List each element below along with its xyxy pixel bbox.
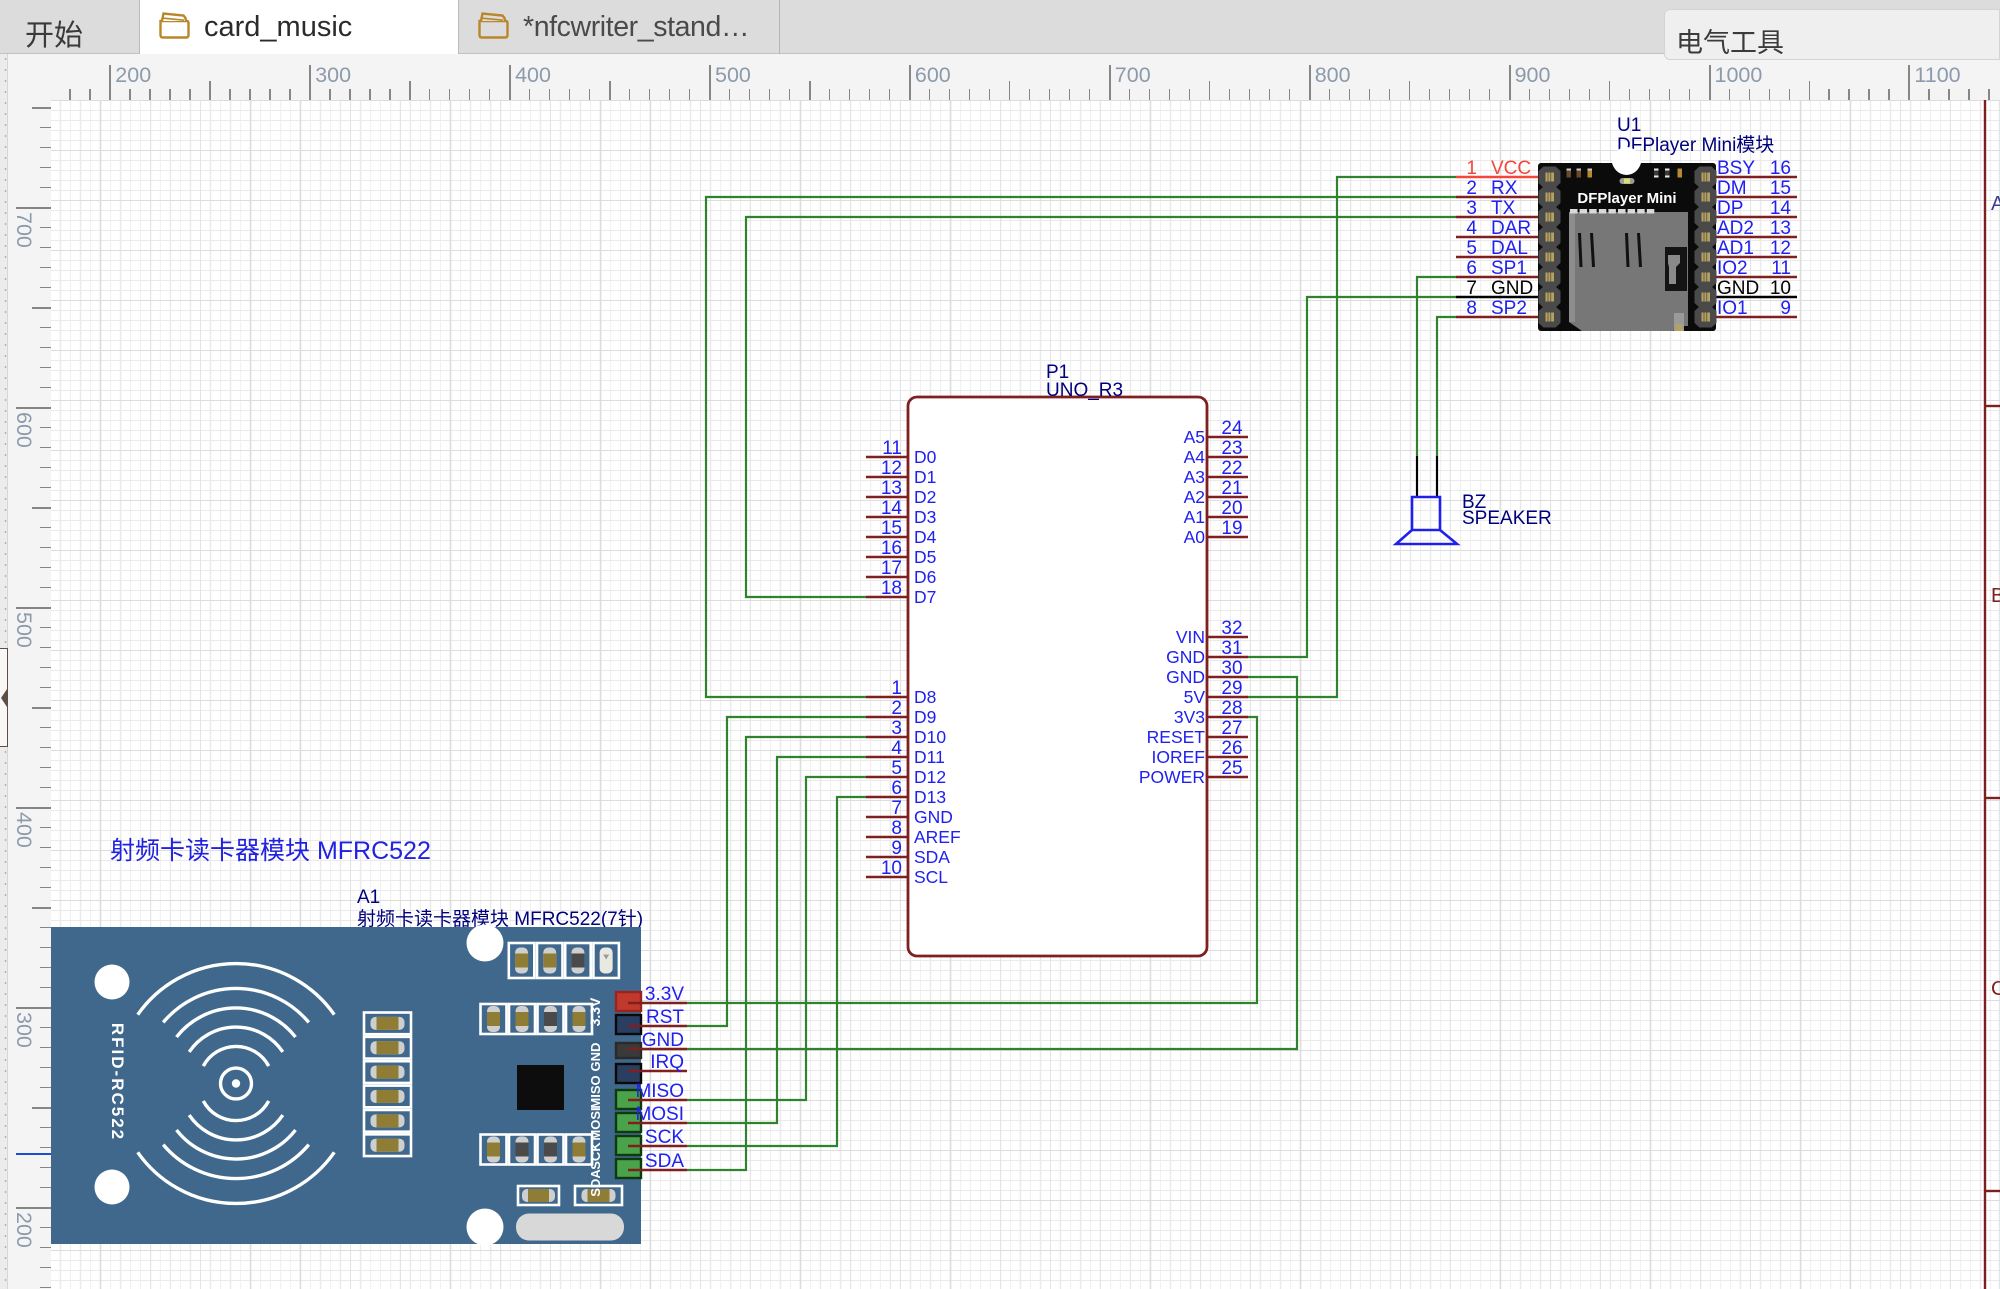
svg-text:D8: D8 xyxy=(914,687,936,707)
svg-text:POWER: POWER xyxy=(1139,767,1205,787)
svg-text:SCK: SCK xyxy=(588,1142,603,1170)
electrical tools panel xyxy=(1664,9,2000,60)
wire MOSI to D11 xyxy=(687,757,866,1123)
svg-text:MOSI: MOSI xyxy=(635,1104,684,1125)
svg-text:A: A xyxy=(1991,193,2000,215)
mfrc522 pin SCK xyxy=(628,1145,687,1148)
svg-text:21: 21 xyxy=(1221,478,1242,499)
svg-text:16: 16 xyxy=(1770,158,1791,179)
dfplayer pin 14 DP xyxy=(1716,216,1797,219)
svg-text:IO2: IO2 xyxy=(1717,258,1748,279)
uno pin 14 D3 xyxy=(866,516,908,519)
wire VCC to 5V net xyxy=(1247,177,1456,697)
svg-text:射频卡读卡器模块 MFRC522(7针): 射频卡读卡器模块 MFRC522(7针) xyxy=(357,908,643,930)
svg-text:1: 1 xyxy=(891,678,902,699)
svg-text:射频卡读卡器模块 MFRC522: 射频卡读卡器模块 MFRC522 xyxy=(110,837,431,865)
svg-text:11: 11 xyxy=(882,438,902,459)
svg-text:2: 2 xyxy=(891,698,902,719)
mfrc522 board picture xyxy=(51,925,641,1246)
svg-text:13: 13 xyxy=(1770,218,1791,239)
svg-text:SP2: SP2 xyxy=(1491,298,1527,319)
dfplayer pin 12 AD1 xyxy=(1716,256,1797,259)
speaker BZ pin wires xyxy=(1416,456,1418,498)
uno pin 18 D7 xyxy=(866,596,908,599)
uno P1 UNO_R3 body xyxy=(908,397,1207,956)
svg-text:SCK: SCK xyxy=(645,1127,684,1148)
svg-text:SDA: SDA xyxy=(914,847,950,867)
svg-text:3: 3 xyxy=(1466,198,1477,219)
svg-text:TX: TX xyxy=(1491,198,1516,219)
dfplayer pin 6 SP1 xyxy=(1456,276,1538,279)
svg-text:VCC: VCC xyxy=(1491,158,1531,179)
svg-text:MISO: MISO xyxy=(635,1081,684,1102)
svg-text:10: 10 xyxy=(881,858,902,879)
svg-text:D13: D13 xyxy=(914,787,946,807)
svg-text:4: 4 xyxy=(1466,218,1477,239)
svg-text:12: 12 xyxy=(1770,238,1791,259)
svg-text:D5: D5 xyxy=(914,547,936,567)
svg-text:14: 14 xyxy=(881,498,903,519)
dfplayer pin 3 TX xyxy=(1456,216,1538,219)
svg-text:SDA: SDA xyxy=(645,1151,684,1172)
uno pin 11 D0 xyxy=(866,456,908,459)
svg-text:DAL: DAL xyxy=(1491,238,1528,259)
svg-text:GND: GND xyxy=(642,1030,684,1051)
uno pin 15 D4 xyxy=(866,536,908,539)
uno pin 32 VIN xyxy=(1207,636,1248,639)
dfplayer pin 1 VCC xyxy=(1456,176,1538,179)
uno pin 21 A2 xyxy=(1207,496,1248,499)
svg-text:26: 26 xyxy=(1221,738,1242,759)
svg-text:31: 31 xyxy=(1221,638,1242,659)
svg-text:IO1: IO1 xyxy=(1717,298,1748,319)
uno pin 29 5V xyxy=(1207,696,1248,699)
svg-text:D9: D9 xyxy=(914,707,936,727)
dfplayer pin 8 SP2 xyxy=(1456,316,1538,319)
uno pin 23 A4 xyxy=(1207,456,1248,459)
dfplayer pin 10 GND xyxy=(1716,296,1797,299)
dfplayer pin 11 IO2 xyxy=(1716,276,1797,279)
svg-text:D11: D11 xyxy=(914,747,945,767)
wire SP2 to speaker xyxy=(1437,317,1456,456)
svg-text:28: 28 xyxy=(1221,698,1242,719)
svg-text:3: 3 xyxy=(891,718,902,739)
mfrc522 pin RST xyxy=(628,1025,687,1028)
dfplayer pin 15 DM xyxy=(1716,196,1797,199)
svg-text:GND: GND xyxy=(588,1043,603,1072)
sheet border right xyxy=(1984,100,1986,1289)
uno pin 30 GND xyxy=(1207,676,1248,679)
svg-text:GND: GND xyxy=(1166,647,1205,667)
corner xyxy=(8,54,51,100)
uno pin 22 A3 xyxy=(1207,476,1248,479)
svg-text:SP1: SP1 xyxy=(1491,258,1527,279)
inactive tab xyxy=(460,0,780,54)
uno pin 24 A5 xyxy=(1207,436,1248,439)
uno pin 5 D12 xyxy=(866,776,908,779)
uno pin 31 GND xyxy=(1207,656,1248,659)
svg-text:4: 4 xyxy=(891,738,902,759)
uno pin 16 D5 xyxy=(866,556,908,559)
uno pin 10 SCL xyxy=(866,876,908,879)
uno pin 9 SDA xyxy=(866,856,908,859)
blue cursor line on left ruler xyxy=(16,1153,51,1155)
svg-text:29: 29 xyxy=(1221,678,1242,699)
active tab xyxy=(139,0,459,54)
svg-text:7: 7 xyxy=(1466,278,1477,299)
svg-text:D1: D1 xyxy=(914,467,936,487)
svg-text:14: 14 xyxy=(1770,198,1792,219)
wire SDA to D10 xyxy=(687,737,866,1170)
svg-text:9: 9 xyxy=(891,838,902,859)
svg-text:D7: D7 xyxy=(914,587,936,607)
svg-text:GND: GND xyxy=(1717,278,1759,299)
svg-text:RFID-RC522: RFID-RC522 xyxy=(108,1023,127,1141)
svg-text:30: 30 xyxy=(1221,658,1242,679)
svg-text:16: 16 xyxy=(881,538,902,559)
svg-text:UNO_R3: UNO_R3 xyxy=(1046,380,1123,401)
svg-text:A3: A3 xyxy=(1184,467,1205,487)
uno pin 4 D11 xyxy=(866,756,908,759)
svg-text:25: 25 xyxy=(1221,758,1242,779)
uno pin 7 GND xyxy=(866,816,908,819)
svg-text:IRQ: IRQ xyxy=(650,1052,684,1073)
svg-text:MOSI: MOSI xyxy=(588,1107,603,1140)
svg-text:RX: RX xyxy=(1491,178,1518,199)
svg-text:IOREF: IOREF xyxy=(1152,747,1205,767)
wire MISO to D12 xyxy=(687,777,866,1100)
svg-text:7: 7 xyxy=(891,798,902,819)
svg-text:15: 15 xyxy=(881,518,902,539)
uno pin 8 AREF xyxy=(866,836,908,839)
uno pin 3 D10 xyxy=(866,736,908,739)
wire SCK to D13 xyxy=(687,797,866,1146)
svg-text:DFPlayer Mini: DFPlayer Mini xyxy=(1577,190,1676,207)
uno pin 27 RESET xyxy=(1207,736,1248,739)
svg-text:DM: DM xyxy=(1717,178,1747,199)
uno pin 1 D8 xyxy=(866,696,908,699)
svg-text:DFPlayer Mini模块: DFPlayer Mini模块 xyxy=(1617,134,1774,156)
svg-text:2: 2 xyxy=(1466,178,1477,199)
svg-text:AD1: AD1 xyxy=(1717,238,1754,259)
svg-text:D12: D12 xyxy=(914,767,946,787)
uno pin 17 D6 xyxy=(866,576,908,579)
svg-text:AREF: AREF xyxy=(914,827,961,847)
svg-text:D3: D3 xyxy=(914,507,936,527)
wire DFPlayer GND to UNO GND pin31 xyxy=(1247,297,1456,657)
sheet border row divider 2 xyxy=(1985,797,2000,799)
uno pin 19 A0 xyxy=(1207,536,1248,539)
svg-text:1: 1 xyxy=(1466,158,1477,179)
svg-text:VIN: VIN xyxy=(1176,627,1205,647)
wire SP1 to speaker xyxy=(1417,277,1456,456)
svg-text:12: 12 xyxy=(881,458,902,479)
svg-text:D2: D2 xyxy=(914,487,936,507)
mfrc522 pin SDA xyxy=(628,1169,687,1172)
uno pin 26 IOREF xyxy=(1207,756,1248,759)
svg-text:C: C xyxy=(1991,978,2000,1000)
svg-text:3.3V: 3.3V xyxy=(587,997,603,1026)
svg-text:13: 13 xyxy=(881,478,902,499)
svg-text:11: 11 xyxy=(1771,258,1791,279)
svg-text:D10: D10 xyxy=(914,727,946,747)
svg-text:32: 32 xyxy=(1221,618,1242,639)
svg-text:9: 9 xyxy=(1780,298,1791,319)
svg-text:5: 5 xyxy=(1466,238,1477,259)
svg-text:15: 15 xyxy=(1770,178,1791,199)
dfplayer pin 4 DAR xyxy=(1456,236,1538,239)
dfplayer pin 7 GND xyxy=(1456,296,1538,299)
svg-text:20: 20 xyxy=(1221,498,1242,519)
mfrc522 pin MISO xyxy=(628,1099,687,1102)
svg-text:23: 23 xyxy=(1221,438,1242,459)
svg-text:D6: D6 xyxy=(914,567,936,587)
svg-text:8: 8 xyxy=(1466,298,1477,319)
uno pin 2 D9 xyxy=(866,716,908,719)
left ruler xyxy=(8,100,51,1289)
svg-text:3.3V: 3.3V xyxy=(645,984,684,1005)
svg-text:A5: A5 xyxy=(1184,427,1205,447)
dfplayer module picture xyxy=(1538,147,1717,331)
uno pin 20 A1 xyxy=(1207,516,1248,519)
panel handle xyxy=(0,648,8,747)
mfrc522 pin 3.3V xyxy=(628,1002,687,1005)
svg-text:10: 10 xyxy=(1770,278,1791,299)
svg-text:6: 6 xyxy=(1466,258,1477,279)
mfrc522 pin GND xyxy=(628,1048,687,1051)
wire UNO GND pin30 to MFRC GND xyxy=(687,677,1297,1049)
dfplayer pin 13 AD2 xyxy=(1716,236,1797,239)
dfplayer pin 16 BSY xyxy=(1716,176,1797,179)
svg-text:DP: DP xyxy=(1717,198,1743,219)
svg-text:8: 8 xyxy=(891,818,902,839)
mfrc522 pin MOSI xyxy=(628,1122,687,1125)
svg-text:A1: A1 xyxy=(1184,507,1205,527)
svg-text:19: 19 xyxy=(1221,518,1242,539)
svg-text:MISO: MISO xyxy=(588,1075,603,1108)
uno pin 28 3V3 xyxy=(1207,716,1248,719)
svg-text:GND: GND xyxy=(1166,667,1205,687)
mfrc522 pin IRQ xyxy=(628,1070,687,1073)
sheet border row divider 3 xyxy=(1985,1190,2000,1192)
top ruler xyxy=(51,54,2000,100)
svg-text:B: B xyxy=(1991,585,2000,607)
svg-text:RST: RST xyxy=(646,1007,684,1028)
svg-text:SPEAKER: SPEAKER xyxy=(1462,508,1552,529)
svg-text:A0: A0 xyxy=(1184,527,1206,547)
svg-text:DAR: DAR xyxy=(1491,218,1531,239)
svg-text:5V: 5V xyxy=(1184,687,1206,707)
svg-text:3V3: 3V3 xyxy=(1174,707,1205,727)
wire RX to D8 xyxy=(706,197,1456,697)
svg-text:AD2: AD2 xyxy=(1717,218,1754,239)
wire RST to D9 xyxy=(687,717,866,1026)
sheet border row divider 1 xyxy=(1985,405,2000,407)
svg-text:18: 18 xyxy=(881,578,902,599)
svg-text:5: 5 xyxy=(891,758,902,779)
svg-text:6: 6 xyxy=(891,778,902,799)
svg-text:SDA: SDA xyxy=(588,1169,603,1197)
wire TX to D7 xyxy=(746,217,1456,597)
uno pin 25 POWER xyxy=(1207,776,1248,779)
svg-text:A4: A4 xyxy=(1184,447,1206,467)
svg-text:D4: D4 xyxy=(914,527,937,547)
svg-text:GND: GND xyxy=(914,807,953,827)
svg-text:27: 27 xyxy=(1221,718,1242,739)
svg-text:D0: D0 xyxy=(914,447,937,467)
speaker BZ symbol xyxy=(1412,497,1440,530)
svg-text:A2: A2 xyxy=(1184,487,1205,507)
tab bar xyxy=(0,0,2000,54)
svg-text:17: 17 xyxy=(881,558,902,579)
svg-text:RESET: RESET xyxy=(1147,727,1206,747)
svg-text:BSY: BSY xyxy=(1717,158,1755,179)
svg-text:SCL: SCL xyxy=(914,867,948,887)
svg-text:GND: GND xyxy=(1491,278,1533,299)
uno pin 6 D13 xyxy=(866,796,908,799)
dfplayer pin 9 IO1 xyxy=(1716,316,1797,319)
svg-text:U1: U1 xyxy=(1617,115,1641,136)
svg-text:A1: A1 xyxy=(357,887,380,908)
dfplayer pin 5 DAL xyxy=(1456,256,1538,259)
dfplayer pin 2 RX xyxy=(1456,196,1538,199)
svg-text:22: 22 xyxy=(1221,458,1242,479)
svg-text:24: 24 xyxy=(1221,418,1243,439)
left gutter strip xyxy=(0,54,8,1289)
wire 3V3 to MFRC 3.3V xyxy=(687,717,1257,1003)
uno pin 12 D1 xyxy=(866,476,908,479)
uno pin 13 D2 xyxy=(866,496,908,499)
